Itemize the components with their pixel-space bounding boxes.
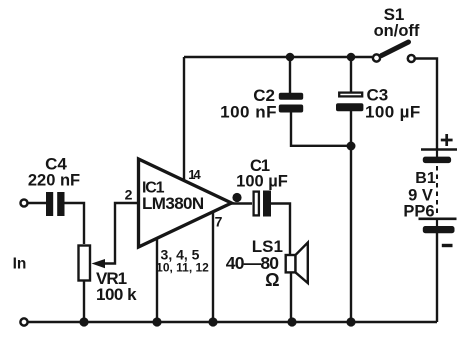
svg-text:B1: B1 bbox=[415, 170, 436, 187]
svg-text:PP6: PP6 bbox=[403, 203, 434, 221]
svg-text:S1: S1 bbox=[384, 5, 405, 24]
svg-text:100 k: 100 k bbox=[96, 285, 137, 304]
svg-text:10, 11, 12: 10, 11, 12 bbox=[156, 260, 209, 274]
svg-text:on/off: on/off bbox=[374, 22, 420, 40]
svg-text:2: 2 bbox=[125, 187, 133, 203]
svg-text:Ω: Ω bbox=[265, 270, 279, 290]
svg-text:220 nF: 220 nF bbox=[28, 172, 80, 190]
svg-text:100 µF: 100 µF bbox=[236, 172, 288, 190]
svg-text:In: In bbox=[13, 256, 27, 273]
svg-text:100 nF: 100 nF bbox=[220, 103, 277, 122]
svg-text:100 µF: 100 µF bbox=[365, 103, 421, 122]
svg-text:LM380N: LM380N bbox=[142, 194, 204, 213]
svg-text:7: 7 bbox=[215, 214, 223, 230]
